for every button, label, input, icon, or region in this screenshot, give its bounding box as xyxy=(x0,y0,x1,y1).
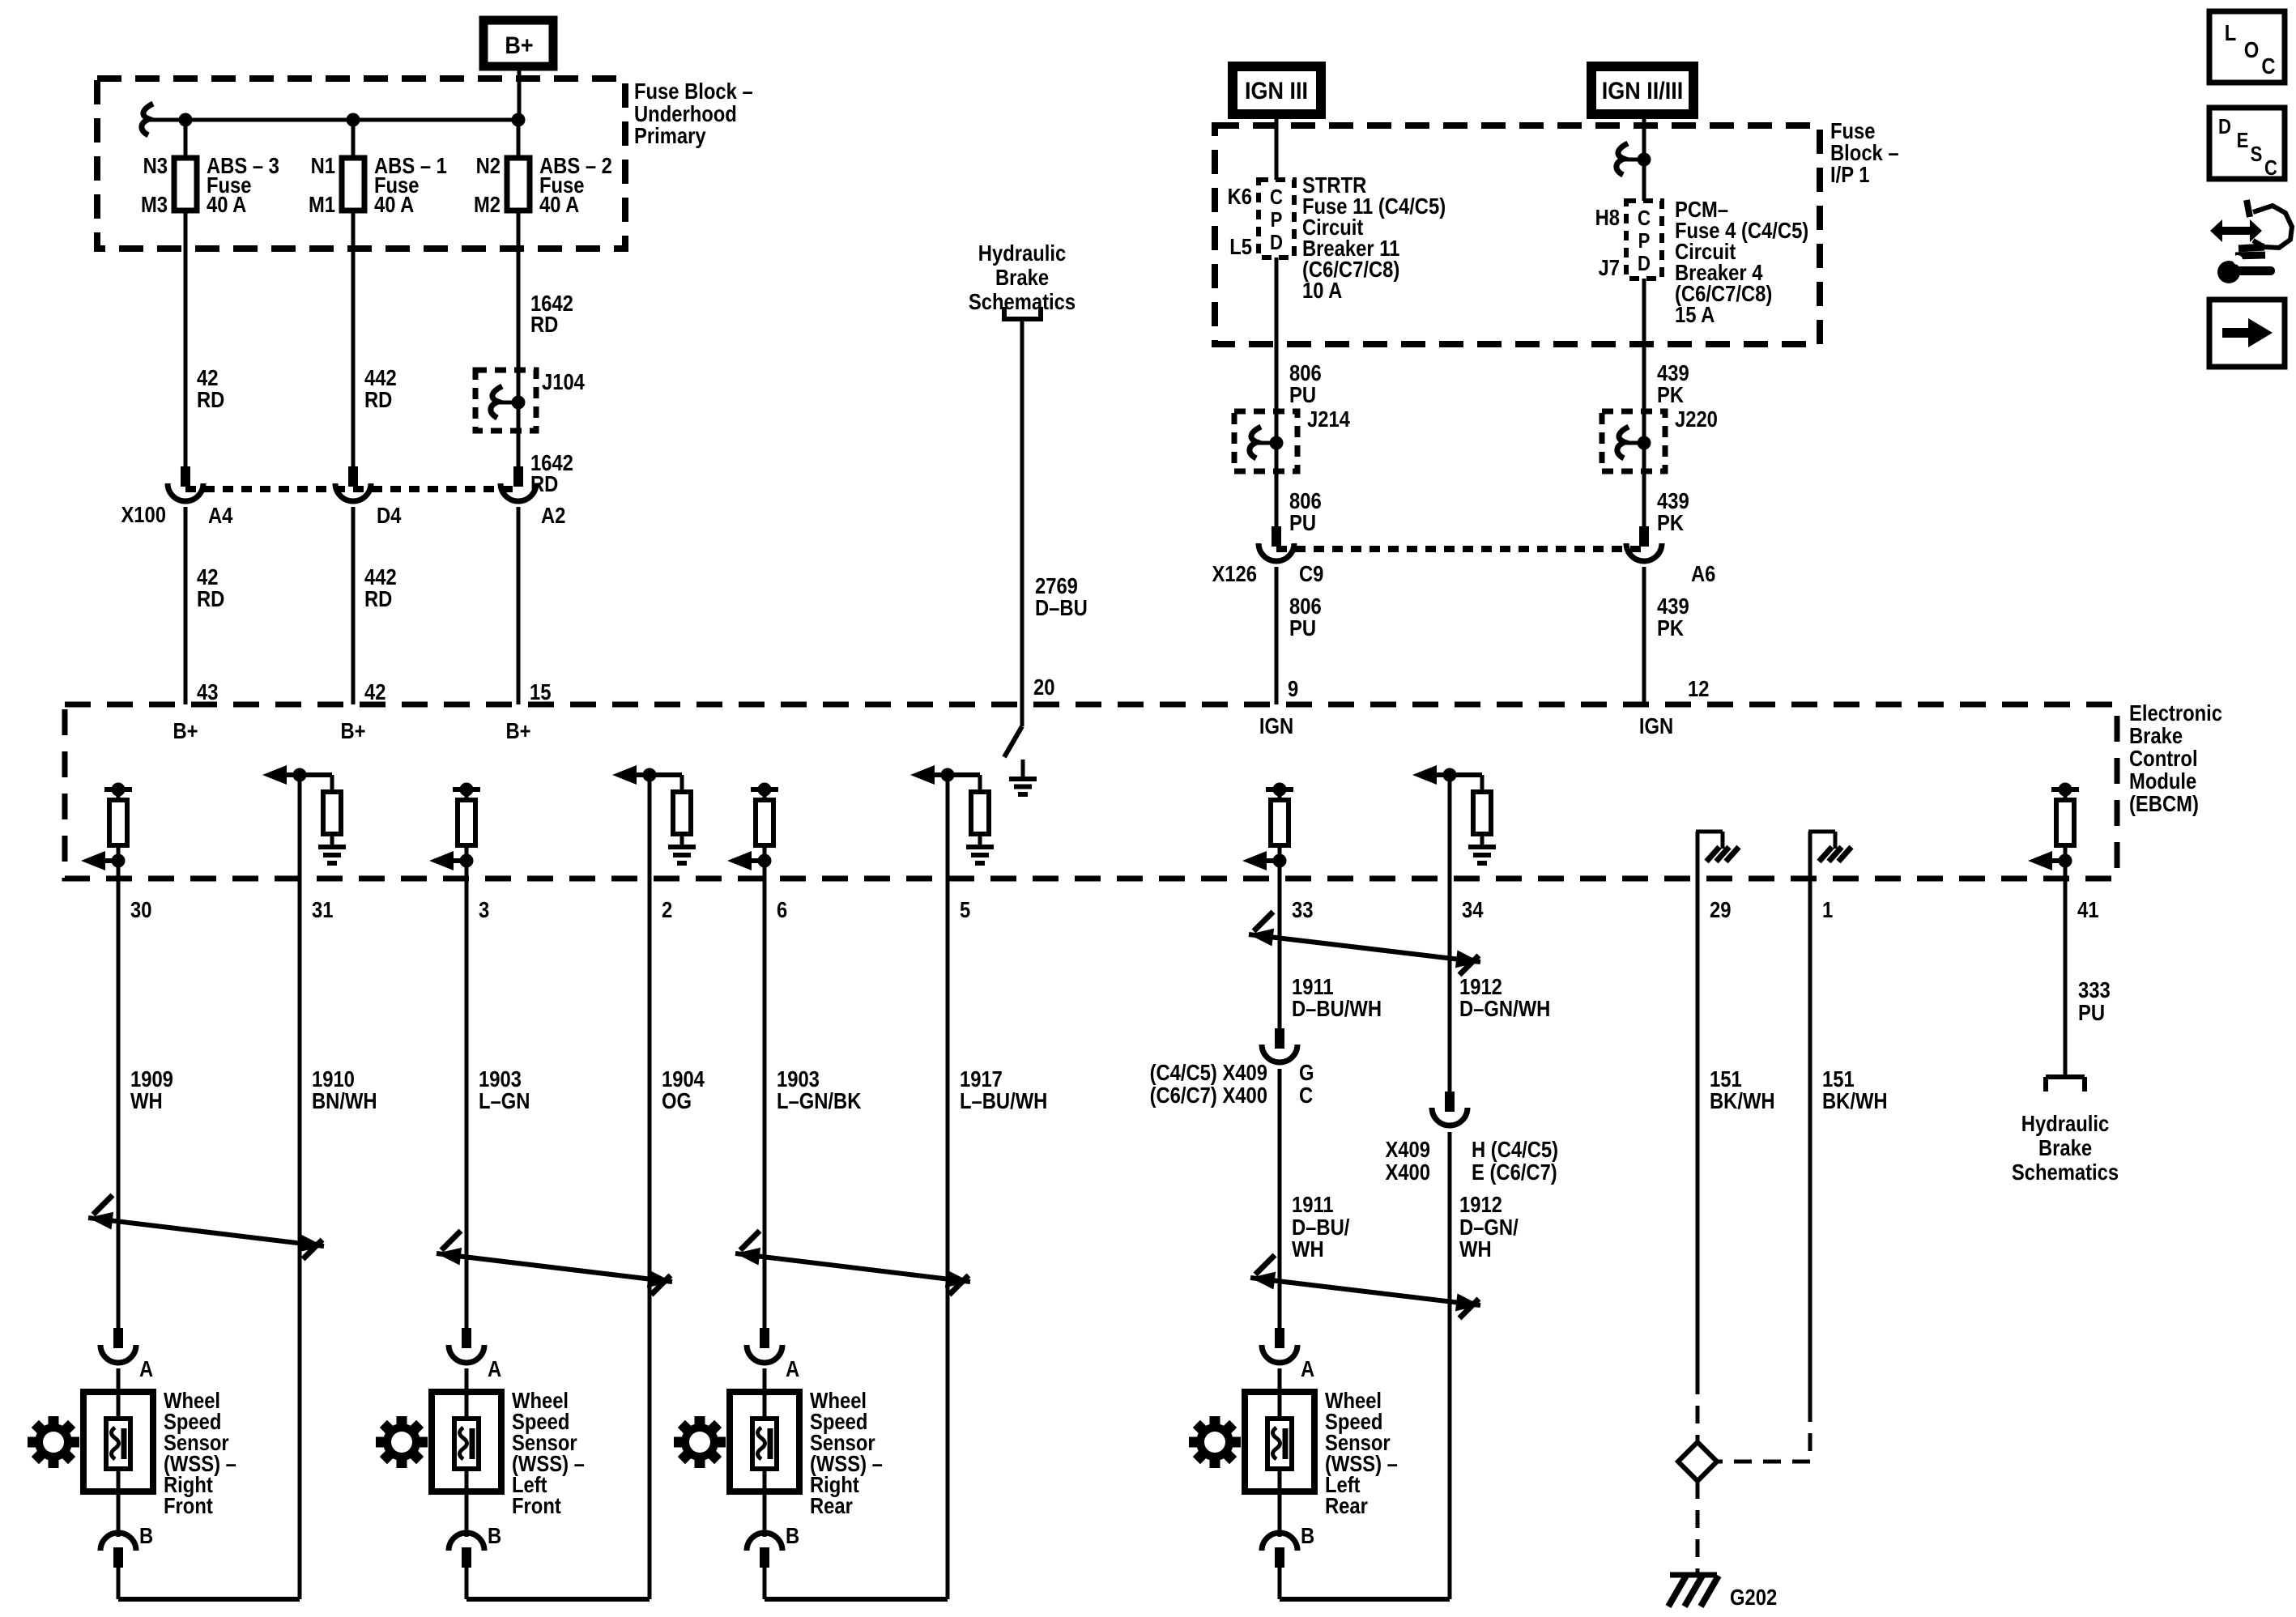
svg-text:J104: J104 xyxy=(542,368,585,394)
svg-text:X100: X100 xyxy=(121,501,166,527)
svg-text:M2: M2 xyxy=(474,191,501,217)
svg-text:5: 5 xyxy=(960,896,970,922)
svg-text:1: 1 xyxy=(1822,896,1833,922)
svg-text:(C6/C7) X400: (C6/C7) X400 xyxy=(1150,1082,1267,1108)
svg-text:C: C xyxy=(1270,185,1283,209)
svg-text:B+: B+ xyxy=(505,32,533,60)
svg-text:P: P xyxy=(1638,229,1651,253)
svg-text:A4: A4 xyxy=(208,502,233,528)
svg-text:N1: N1 xyxy=(311,152,335,178)
svg-text:C: C xyxy=(1299,1082,1313,1108)
svg-text:Schematics: Schematics xyxy=(2012,1159,2119,1185)
svg-text:15: 15 xyxy=(530,679,551,704)
svg-text:OG: OG xyxy=(662,1087,692,1113)
svg-text:PU: PU xyxy=(1289,509,1316,535)
svg-text:C: C xyxy=(1638,206,1651,230)
svg-text:PU: PU xyxy=(2078,999,2105,1025)
svg-text:Brake: Brake xyxy=(995,264,1049,290)
svg-text:PU: PU xyxy=(1289,615,1316,640)
svg-text:40 A: 40 A xyxy=(374,191,415,217)
svg-text:D–BU: D–BU xyxy=(1035,594,1088,620)
svg-text:33: 33 xyxy=(1292,896,1313,922)
svg-text:X126: X126 xyxy=(1212,560,1257,586)
svg-text:41: 41 xyxy=(2077,896,2098,922)
svg-text:E: E xyxy=(2237,129,2249,152)
svg-text:WH: WH xyxy=(1459,1236,1492,1262)
svg-text:Hydraulic: Hydraulic xyxy=(978,240,1066,266)
svg-text:D–BU/WH: D–BU/WH xyxy=(1292,995,1382,1021)
svg-text:Primary: Primary xyxy=(634,122,706,148)
svg-text:BK/WH: BK/WH xyxy=(1822,1087,1888,1113)
svg-text:20: 20 xyxy=(1033,674,1054,700)
svg-text:A: A xyxy=(786,1355,799,1381)
svg-text:X400: X400 xyxy=(1385,1159,1430,1185)
svg-text:BN/WH: BN/WH xyxy=(312,1087,377,1113)
svg-text:RD: RD xyxy=(530,311,558,337)
svg-text:C: C xyxy=(2261,53,2275,79)
svg-text:D: D xyxy=(2218,115,2231,138)
svg-text:S: S xyxy=(2251,143,2263,166)
svg-text:15 A: 15 A xyxy=(1675,301,1715,327)
svg-text:31: 31 xyxy=(312,896,333,922)
svg-text:29: 29 xyxy=(1710,896,1731,922)
svg-text:12: 12 xyxy=(1688,675,1709,701)
svg-text:D: D xyxy=(1638,252,1651,275)
svg-text:D: D xyxy=(1270,231,1283,254)
svg-text:Brake: Brake xyxy=(2038,1134,2092,1160)
svg-text:B+: B+ xyxy=(505,717,530,743)
svg-text:IGN III: IGN III xyxy=(1245,78,1308,105)
svg-text:PK: PK xyxy=(1657,509,1684,535)
svg-text:3: 3 xyxy=(479,896,489,922)
svg-text:Front: Front xyxy=(512,1492,561,1518)
svg-text:B: B xyxy=(1301,1522,1314,1548)
svg-text:D4: D4 xyxy=(377,502,402,528)
svg-text:PK: PK xyxy=(1657,615,1684,640)
svg-text:L: L xyxy=(2225,19,2237,45)
svg-text:6: 6 xyxy=(777,896,787,922)
svg-text:M3: M3 xyxy=(141,191,168,217)
svg-text:M1: M1 xyxy=(309,191,335,217)
svg-text:PK: PK xyxy=(1657,381,1684,407)
svg-text:IGN II/III: IGN II/III xyxy=(1602,78,1683,105)
svg-text:IGN: IGN xyxy=(1639,713,1673,738)
svg-text:43: 43 xyxy=(197,679,218,704)
svg-text:L–BU/WH: L–BU/WH xyxy=(960,1087,1047,1113)
svg-text:L–GN/BK: L–GN/BK xyxy=(777,1087,862,1113)
svg-text:N2: N2 xyxy=(476,152,501,178)
svg-text:H8: H8 xyxy=(1595,204,1620,230)
svg-text:A2: A2 xyxy=(541,502,565,528)
svg-text:30: 30 xyxy=(130,896,151,922)
svg-text:A6: A6 xyxy=(1691,560,1715,586)
svg-text:J7: J7 xyxy=(1599,254,1620,280)
svg-text:B: B xyxy=(139,1522,153,1548)
svg-text:B: B xyxy=(488,1522,501,1548)
svg-text:RD: RD xyxy=(197,386,224,412)
svg-text:L–GN: L–GN xyxy=(479,1087,530,1113)
svg-text:D–GN/WH: D–GN/WH xyxy=(1459,995,1550,1021)
svg-text:PU: PU xyxy=(1289,381,1316,407)
svg-text:C: C xyxy=(2264,156,2277,180)
svg-text:9: 9 xyxy=(1288,675,1298,701)
svg-text:42: 42 xyxy=(364,679,386,704)
svg-text:34: 34 xyxy=(1462,896,1484,922)
svg-text:B+: B+ xyxy=(173,717,198,743)
svg-text:O: O xyxy=(2244,36,2260,62)
svg-text:J214: J214 xyxy=(1307,406,1350,432)
svg-text:Rear: Rear xyxy=(1325,1492,1368,1518)
svg-text:P: P xyxy=(1271,208,1283,232)
svg-text:Rear: Rear xyxy=(810,1492,853,1518)
svg-text:RD: RD xyxy=(364,386,392,412)
svg-text:2: 2 xyxy=(662,896,672,922)
svg-text:Schematics: Schematics xyxy=(969,288,1076,314)
svg-text:WH: WH xyxy=(130,1087,163,1113)
svg-text:N3: N3 xyxy=(143,152,168,178)
svg-text:G202: G202 xyxy=(1730,1584,1777,1610)
svg-text:E (C6/C7): E (C6/C7) xyxy=(1472,1159,1557,1185)
svg-text:RD: RD xyxy=(197,585,224,611)
svg-text:Front: Front xyxy=(164,1492,213,1518)
svg-text:J220: J220 xyxy=(1675,406,1718,432)
svg-text:A: A xyxy=(1301,1355,1314,1381)
svg-text:Hydraulic: Hydraulic xyxy=(2021,1110,2109,1136)
svg-text:(EBCM): (EBCM) xyxy=(2129,790,2199,816)
svg-text:K6: K6 xyxy=(1228,183,1252,209)
svg-text:BK/WH: BK/WH xyxy=(1710,1087,1775,1113)
svg-text:B: B xyxy=(786,1522,799,1548)
svg-text:10 A: 10 A xyxy=(1302,277,1343,303)
svg-text:WH: WH xyxy=(1292,1236,1324,1262)
svg-text:B+: B+ xyxy=(340,717,365,743)
svg-text:RD: RD xyxy=(364,585,392,611)
svg-text:L5: L5 xyxy=(1229,233,1252,259)
svg-text:I/P 1: I/P 1 xyxy=(1830,161,1870,187)
svg-text:40 A: 40 A xyxy=(539,191,580,217)
svg-text:A: A xyxy=(139,1355,153,1381)
svg-text:IGN: IGN xyxy=(1259,713,1293,738)
svg-text:C9: C9 xyxy=(1299,560,1323,586)
svg-text:A: A xyxy=(488,1355,501,1381)
svg-text:40 A: 40 A xyxy=(207,191,247,217)
